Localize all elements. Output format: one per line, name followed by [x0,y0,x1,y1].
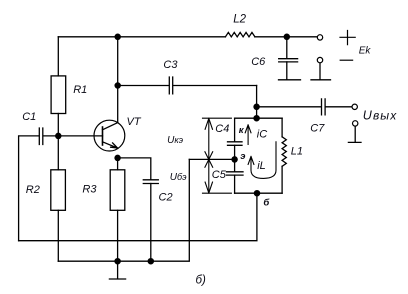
resistor R2 [51,170,66,211]
ground under Uvyh [348,126,361,142]
wire tank left upper stem [234,118,236,141]
svg-text:э: э [240,151,245,162]
svg-text:L2: L2 [233,13,246,25]
wire R1 bottom to base junction to R2 [57,114,59,170]
arrow iL [248,142,276,179]
terminal Uvyh top circle [352,104,357,109]
terminal Uvyh ground circle [353,121,358,126]
svg-text:C5: C5 [212,169,227,181]
wire R3 top stem [117,158,119,170]
inductor L2 [225,32,255,36]
node R3-ground junction [115,259,120,264]
minus sign [340,59,352,61]
wire C4 to emitter node [234,145,236,171]
transistor VT base bar [102,127,104,145]
wire output lead [257,106,321,108]
svg-text:C7: C7 [310,122,325,134]
svg-text:VT: VT [127,116,142,128]
svg-text:L1: L1 [291,145,303,157]
wire C3 left lead [118,85,169,87]
wire C1 right lead to base [44,135,103,137]
node collector-rail junction [115,34,120,39]
svg-text:iL: iL [257,160,266,172]
wire C7 right lead [326,106,352,108]
node base junction [56,133,61,138]
svg-text:C4: C4 [215,123,229,135]
resistor R1 [51,76,66,114]
transistor VT collector diagonal [103,123,118,130]
wire feedback bottom [19,193,257,241]
capacitor C1 [39,128,43,145]
inductor L1 [282,137,286,167]
svg-text:iC: iC [257,128,267,140]
capacitor C5 [227,172,244,175]
arrowhead up top [205,118,212,129]
wire minus terminal stem [319,63,321,79]
ground under Ek minus [311,79,331,81]
wire tank bottom [235,192,283,194]
svg-text:Ek: Ek [359,46,372,57]
capacitor C3 [169,77,172,94]
svg-text:C6: C6 [251,56,266,68]
dimension line Ukz/Ubz [203,118,232,193]
transistor VT emitter diagonal with arrow [103,142,118,148]
capacitor C2 [143,180,158,184]
wire C6 top stem [286,37,288,59]
wire tank top [235,117,283,119]
wire top rail left segment [58,36,225,38]
wire C3 right lead [173,85,256,87]
terminal Ek plus circle [317,35,322,40]
svg-text:C3: C3 [163,59,178,71]
resistor R3 [110,170,125,211]
wire ground rail [58,159,189,261]
svg-text:C2: C2 [159,192,173,204]
ground main symbol [109,261,125,279]
arrowhead cross at middle [205,152,213,167]
node tank middle junction [232,157,237,162]
transistor VT circle [94,120,125,151]
svg-text:Uкэ: Uкэ [167,135,183,146]
wire tank right upper stem [281,118,283,137]
wire C6 bottom stem [286,62,288,79]
wire collector riser [117,37,119,123]
node collector-C3 junction [115,83,120,88]
svg-text:C1: C1 [22,111,36,123]
node rail-C6 junction [284,34,289,39]
node C2-ground junction [148,259,153,264]
svg-text:б): б) [196,275,206,287]
arrowhead down bottom [205,182,212,193]
svg-text:Uвых: Uвых [363,109,398,123]
ground under C6 [279,79,301,81]
wire R3 bottom stem [117,210,119,261]
capacitor C6 [279,59,298,62]
capacitor C4 [228,142,243,146]
svg-text:к: к [239,125,245,136]
node tank top junction [254,116,259,121]
arrow iC [245,125,251,145]
svg-text:R2: R2 [26,184,40,196]
wire R2 bottom stem [57,210,59,261]
capacitor C7 [322,99,326,115]
wire C1 left lead and left riser [19,136,39,241]
wire C2 bottom stem [150,184,152,262]
svg-text:R1: R1 [73,84,87,96]
wire C5 bottom stem [234,175,236,193]
node emitter junction [115,155,120,160]
node output junction [254,104,259,109]
svg-text:R3: R3 [82,184,97,196]
wire emitter to C2 [118,158,151,180]
wire top rail right segment [255,36,317,38]
plus sign [340,31,355,45]
wire output riser [256,86,258,119]
wire R1 top stem [57,37,59,76]
wire L1 bottom stem [281,166,283,193]
svg-text:Uбэ: Uбэ [170,172,187,183]
node tank bottom junction [254,191,259,196]
svg-text:б: б [263,197,270,208]
wire tank emitter lead [189,158,234,160]
terminal Ek minus circle [317,57,322,62]
